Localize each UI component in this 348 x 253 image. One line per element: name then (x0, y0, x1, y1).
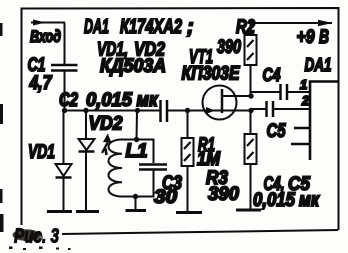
svg-text:К174ХА2: К174ХА2 (120, 16, 182, 38)
capacitor C1 (28, 55, 78, 94)
capacitor C2 (161, 100, 168, 122)
capacitor C3 (137, 140, 183, 209)
svg-text:мк: мк (299, 190, 320, 211)
junction source (248, 108, 253, 113)
svg-text:30: 30 (154, 187, 177, 208)
svg-text:DA1: DA1 (84, 16, 109, 38)
svg-text:C2: C2 (59, 90, 78, 111)
wire C1 down to bus node (64, 71, 66, 111)
border frame (decorative) (22, 8, 339, 230)
svg-text:1: 1 (300, 77, 307, 92)
capacitor C5 (251, 101, 311, 142)
IC DA1 fragment (291, 55, 338, 160)
wire bus left segment (64, 110, 160, 112)
power rail +9 В (250, 20, 333, 48)
svg-text:+9: +9 (297, 27, 315, 48)
svg-text:DA1: DA1 (305, 55, 332, 75)
resistor R2 (217, 17, 257, 96)
svg-text:2: 2 (301, 93, 310, 108)
svg-text:Вход: Вход (30, 27, 61, 46)
junction drain (248, 93, 253, 98)
varicap tuning arrow VD2 (102, 134, 112, 156)
svg-text:C4: C4 (263, 65, 281, 85)
svg-text:КД503А: КД503А (100, 56, 166, 77)
junction R1-gate (185, 108, 190, 113)
svg-text:C5: C5 (267, 121, 286, 142)
ground L1 C3 (126, 209, 147, 212)
label C4 C5 values (253, 174, 320, 211)
resistor R1 (182, 111, 222, 213)
scan smudge marks (decorative) (0, 23, 71, 250)
wire tank to ground (135, 197, 137, 211)
inductor L1 (109, 140, 148, 197)
svg-text:КП303Е: КП303Е (182, 64, 241, 85)
transistor VT1 (182, 47, 252, 120)
junction tank bottom (133, 194, 138, 199)
svg-text:4,7: 4,7 (29, 73, 53, 94)
svg-text:;: ; (187, 16, 194, 38)
svg-text:VD2: VD2 (89, 114, 123, 135)
junction VD2-bus (83, 108, 88, 113)
ground R3 (236, 209, 261, 212)
diode VD1 (28, 111, 72, 212)
figure caption Рис. 3 (13, 226, 60, 248)
svg-text:0,015: 0,015 (86, 90, 132, 111)
svg-text:390: 390 (217, 37, 241, 58)
ground R1 (176, 211, 202, 214)
capacitor C4 (251, 65, 311, 100)
junction tank top (134, 137, 139, 142)
svg-text:R2: R2 (236, 17, 255, 38)
svg-text:L1: L1 (126, 141, 148, 162)
resistor R3 (206, 111, 257, 212)
junction C1-bus (62, 108, 67, 113)
wire bus right segment to gate (168, 110, 222, 112)
svg-text:VD1: VD1 (28, 142, 55, 163)
wire bus down to tank top (136, 111, 139, 141)
svg-text:1М: 1М (197, 149, 221, 170)
junction L1-bus (135, 108, 140, 113)
diode VD2 (79, 111, 123, 212)
ground VD2 (76, 210, 99, 213)
wire input corner down to C1 (64, 23, 66, 65)
ground VD1 (47, 210, 72, 213)
input arrow Вход (30, 20, 65, 47)
svg-text:0,015: 0,015 (253, 190, 295, 211)
caption rule / frame bottom (62, 230, 338, 234)
svg-text:В: В (319, 27, 329, 48)
svg-text:мк: мк (137, 90, 159, 111)
svg-text:390: 390 (208, 184, 239, 205)
